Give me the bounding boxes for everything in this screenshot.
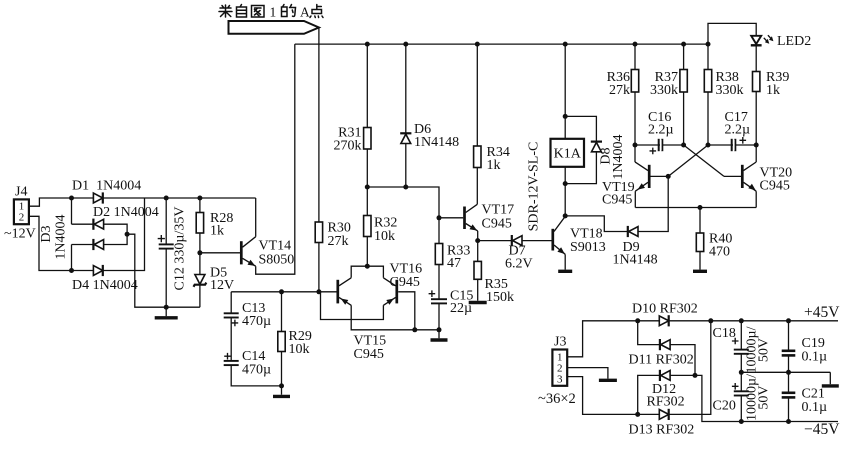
- svg-text:C945: C945: [390, 275, 420, 290]
- ground symbol below C12: [165, 307, 167, 316]
- wire: VT20 base lead: [724, 175, 741, 177]
- R36 box: [631, 70, 638, 93]
- ground symbol at 0V rail right end: [829, 372, 831, 384]
- wire: rail to R31: [366, 44, 368, 127]
- wire: D10 cathode to +45V rail: [669, 320, 838, 322]
- junction rail/D6: [403, 42, 408, 47]
- wire: emitter rail to R40: [699, 208, 701, 234]
- D4 symbol: [93, 265, 102, 276]
- svg-text:D10 RF302: D10 RF302: [632, 302, 698, 317]
- wire: R38 to right node: [707, 92, 709, 145]
- svg-text:0.1µ: 0.1µ: [802, 400, 828, 415]
- svg-text:VT14: VT14: [259, 239, 292, 254]
- svg-text:12V: 12V: [210, 278, 234, 293]
- wire: VT18 collector to D9: [565, 216, 628, 232]
- wire: C15 to ground node: [438, 303, 440, 329]
- wire: R37 to left node: [683, 92, 685, 145]
- svg-text:1N4004: 1N4004: [611, 134, 626, 179]
- capacitor C17 2.2µ: [731, 139, 733, 151]
- R34 box: [474, 146, 481, 168]
- wire: VT17 emitter node: [477, 231, 479, 241]
- svg-text:27k: 27k: [609, 83, 630, 98]
- junction row1/C12: [164, 196, 169, 201]
- svg-text:A: A: [300, 5, 310, 20]
- node AC1 (D1 anode / D2 cathode): [69, 196, 74, 201]
- node negative (D11/D12 anodes): [693, 373, 698, 378]
- wire: rail to D6: [405, 44, 407, 133]
- svg-text:1k: 1k: [210, 224, 224, 239]
- wire: R40 to ground: [699, 252, 701, 270]
- wire: AC1 to D10: [638, 320, 660, 322]
- junction left node/R37/VT20 base cross: [681, 143, 686, 148]
- node AC1 out (D10 anode/D11 cathode): [635, 318, 640, 323]
- wire: row1 to C12 top: [165, 198, 167, 244]
- wire: R33 to C15: [438, 265, 440, 300]
- junction emitter/R35/D7: [475, 238, 480, 243]
- wire: D6 to timing node: [405, 144, 407, 188]
- wire: D7 to VT18 base: [522, 240, 552, 242]
- wire: +12V top rail: [295, 43, 708, 45]
- svg-text:J4: J4: [15, 185, 27, 200]
- wire: rail jog up to LED2: [708, 23, 756, 44]
- svg-text:3: 3: [557, 374, 563, 386]
- wire: coil bottom to VT18 collector: [564, 167, 566, 216]
- wire: multivibrator emitter rail: [635, 207, 756, 209]
- junction VT18 collector/coil/D9 branch: [563, 213, 568, 218]
- wire: AC1 down to D11: [638, 321, 660, 345]
- ground symbol below C15: [438, 330, 440, 339]
- capacitor C14 470µ: [224, 360, 239, 362]
- D7 symbol: [512, 235, 522, 246]
- node bridge negative (D2/D3 anodes): [125, 232, 130, 237]
- ground: [693, 270, 707, 273]
- junction R28/VT14 base/D5: [197, 250, 202, 255]
- wire: rail to R34: [476, 44, 478, 146]
- wire: R36 to left node: [634, 92, 636, 145]
- R37 box: [680, 70, 687, 93]
- D12 symbol: [660, 370, 670, 381]
- svg-text:10k: 10k: [289, 342, 310, 357]
- ground symbol below VT18 emitter: [564, 254, 566, 269]
- banner arrow pointer: [229, 21, 319, 34]
- svg-text:J3: J3: [554, 335, 566, 350]
- wire: VT14 collector up to row1: [255, 198, 257, 237]
- ground: [822, 384, 839, 387]
- wire: cross-couple VT19 base to right node: [668, 145, 708, 176]
- junction row1/R28: [197, 196, 202, 201]
- junction right node/R39/VT20 collector: [754, 143, 759, 148]
- wire: J3 pin3 to D13 row: [567, 377, 638, 415]
- wire: 0V middle rail: [741, 371, 830, 373]
- wire: D5 to ground bus: [199, 285, 201, 308]
- wire: R39 to right node: [755, 92, 757, 146]
- R40 box: [696, 233, 703, 252]
- wire: timing node line to VT17 base: [367, 187, 439, 218]
- transistor VT20 C945: [742, 162, 756, 191]
- wire: rail to R36: [634, 44, 636, 69]
- R32 box: [364, 216, 371, 237]
- R29 box: [278, 332, 285, 352]
- wire: AC2 vertical D3 to row4: [71, 245, 73, 271]
- svg-text:2.2µ: 2.2µ: [648, 123, 674, 138]
- svg-text:1k: 1k: [766, 83, 780, 98]
- transistor VT18 S9013: [553, 216, 565, 254]
- svg-text:D2 1N4004: D2 1N4004: [93, 205, 159, 220]
- wire: node to R32: [366, 187, 368, 216]
- junction -45V rail/C21: [786, 419, 791, 424]
- D13 symbol: [659, 409, 668, 420]
- svg-text:C945: C945: [354, 347, 384, 362]
- junction -45V rail/C20: [739, 419, 744, 424]
- wire: left node down to VT19 collector: [634, 145, 636, 162]
- wire: D12 anode to negative node: [670, 374, 695, 376]
- wire: row1 to R28: [199, 198, 201, 213]
- D8 symbol: [591, 142, 602, 152]
- svg-text:+45V: +45V: [804, 304, 840, 321]
- wire: rail to R38: [707, 44, 709, 69]
- svg-text:0.1µ: 0.1µ: [802, 350, 828, 365]
- D11 symbol: [660, 339, 670, 350]
- wire: VT19 emitter down to emitter rail: [634, 191, 636, 207]
- junction base node/R30/VT16 emitter: [316, 289, 321, 294]
- ground: [469, 301, 487, 304]
- R33 box: [435, 244, 442, 265]
- svg-text:150k: 150k: [486, 290, 514, 305]
- banner text: 来自图1的A点 (hand-drawn CJK glyphs): [219, 5, 323, 20]
- junction left node/R36/VT19 collector: [633, 143, 638, 148]
- svg-text:D4 1N4004: D4 1N4004: [72, 278, 138, 293]
- junction base/R33 chain: [437, 215, 442, 220]
- junction timing node/D6: [403, 185, 408, 190]
- wire: VT20 emitter down to emitter rail: [755, 191, 757, 207]
- wire: C12 bottom to ground bus: [165, 249, 167, 308]
- junction rail/R34: [475, 42, 480, 47]
- wire: D12 cathode down to AC2: [638, 375, 660, 414]
- wire: cross-couple VT20 base to left node: [684, 145, 724, 176]
- wire: 0V rail to C21: [788, 372, 790, 392]
- svg-text:1k: 1k: [487, 158, 501, 173]
- svg-text:470µ: 470µ: [242, 363, 271, 378]
- wire: D13 cathode up to +45V rail (crosses -45 feed, no dot): [669, 321, 711, 415]
- wire: VT16 base tie down: [398, 292, 415, 330]
- wire: VT17 base lead: [439, 217, 463, 219]
- svg-text:1N4004: 1N4004: [54, 214, 69, 259]
- svg-text:D1 1N4004: D1 1N4004: [72, 179, 141, 194]
- wire: bridge row2 (D2 row): [72, 224, 128, 234]
- R31 box: [364, 128, 371, 150]
- junction VT19 base/D9/cross: [666, 174, 671, 179]
- wire: VT15 base node line: [231, 291, 336, 293]
- wire: AC1 vertical D1-anode to D2: [71, 198, 73, 224]
- wire: R31 to timing node: [366, 149, 368, 187]
- wire: base wire to VT14: [200, 252, 240, 254]
- wire: rail to R37: [683, 44, 685, 69]
- junction +45V rail/D13 feed: [708, 318, 713, 323]
- wire: rail down to relay coil: [564, 44, 566, 139]
- R39 box: [753, 72, 760, 92]
- wire: node to R29: [281, 292, 283, 332]
- svg-text:C945: C945: [602, 193, 632, 208]
- wire: bridge row4 (D4 row): [72, 198, 145, 271]
- wire: VT15/VT16 collector tie: [351, 266, 383, 278]
- svg-text:~12V: ~12V: [4, 227, 36, 242]
- wire: bridge negative to ground bus: [127, 234, 200, 307]
- svg-text:1N4148: 1N4148: [613, 253, 658, 268]
- connector J3: [552, 350, 567, 386]
- svg-text:2: 2: [19, 211, 25, 223]
- wire: J3 pin1 to D10 row: [567, 321, 638, 357]
- zener diode D5 12V: [194, 275, 207, 287]
- svg-text:SDR-12V-SL-C: SDR-12V-SL-C: [527, 142, 542, 232]
- junction emitter rail/R40: [698, 205, 703, 210]
- junction +45V rail/C18: [739, 318, 744, 323]
- wire: J3 pin2 to ground: [567, 368, 608, 379]
- junction rail/R37: [681, 42, 686, 47]
- svg-text:D13 RF302: D13 RF302: [629, 423, 695, 438]
- svg-text:D3: D3: [39, 225, 54, 242]
- D3 symbol: [93, 239, 103, 250]
- LED LED2: [751, 35, 772, 45]
- svg-text:50V: 50V: [757, 385, 772, 409]
- svg-text:S9013: S9013: [570, 240, 606, 255]
- D6 symbol: [400, 133, 411, 143]
- wire: right node down to VT20 collector: [755, 145, 757, 162]
- junction collectors/R32: [365, 264, 370, 269]
- transistor VT16 C945: [383, 278, 396, 306]
- wire: D8 top branch: [565, 116, 596, 141]
- wire: VT15 emitter down to bottom wire: [351, 305, 439, 330]
- wire: R34 to VT17 collector: [476, 168, 478, 205]
- svg-text:270k: 270k: [334, 139, 362, 154]
- junction rail/R38-LED: [706, 42, 711, 47]
- relay coil K1A: [551, 139, 585, 167]
- svg-text:C18: C18: [713, 326, 736, 341]
- D1 symbol: [93, 192, 102, 203]
- wire: R29 to ground node: [281, 352, 283, 386]
- transistor VT15 C945: [338, 278, 351, 306]
- wire: J4 pin1 to bridge row1: [29, 198, 72, 206]
- wire: VT19 base lead: [651, 175, 669, 177]
- R35 box: [474, 261, 481, 279]
- junction rail/R36: [633, 42, 638, 47]
- wire: C21 to -45V rail: [788, 397, 790, 421]
- wire: negative node to -45V rail: [695, 375, 838, 421]
- node AC2 (D4 anode / D3 cathode): [69, 268, 74, 273]
- svg-text:VT17: VT17: [482, 203, 515, 218]
- wire: C20 to -45V rail: [740, 396, 742, 422]
- wire: emitter to D7: [478, 240, 512, 242]
- svg-text:C945: C945: [482, 217, 512, 232]
- wire: AC2 to D13: [638, 413, 660, 415]
- R30 box: [315, 222, 322, 243]
- svg-text:LED2: LED2: [777, 34, 811, 49]
- junction node/R29: [279, 289, 284, 294]
- junction 0V/C18-C20: [739, 370, 744, 375]
- junction bottom wire/VT16 base tie: [412, 327, 417, 332]
- svg-text:330k: 330k: [716, 83, 744, 98]
- connector J4: [14, 199, 29, 224]
- junction coil top/D8 branch: [563, 114, 568, 119]
- ground: [599, 379, 617, 382]
- svg-text:D11 RF302: D11 RF302: [629, 353, 694, 368]
- svg-text:330k: 330k: [650, 83, 678, 98]
- D9 symbol: [628, 226, 638, 237]
- junction 0V/C19-C21: [786, 370, 791, 375]
- wire: C13 to C14: [230, 318, 232, 361]
- svg-text:2.2µ: 2.2µ: [725, 123, 751, 138]
- wire: R28 to D5/base node: [199, 233, 201, 275]
- node AC2 out (D13 anode/D12 cathode): [635, 412, 640, 417]
- wire: C19 to 0V rail: [788, 355, 790, 372]
- svg-text:470µ: 470µ: [242, 314, 271, 329]
- svg-text:~36×2: ~36×2: [538, 391, 576, 407]
- junction bottom wire/C15/ground: [437, 327, 442, 332]
- ground symbol below R29/C14: [281, 386, 283, 395]
- svg-text:C20: C20: [713, 399, 736, 414]
- wire: LED2 to R39: [755, 45, 757, 71]
- ground: [155, 316, 178, 319]
- wire: D11 anode to negative node: [670, 345, 695, 376]
- ground: [558, 270, 572, 273]
- wire: R32 to collectors: [366, 237, 368, 267]
- svg-text:50V: 50V: [757, 338, 772, 362]
- transistor VT17 C945: [465, 204, 478, 231]
- junction timing node/R31-R32: [365, 185, 370, 190]
- svg-text:470: 470: [709, 245, 730, 260]
- junction right node/R38/VT19 base cross: [706, 143, 711, 148]
- wire: R35 to ground: [477, 279, 479, 300]
- capacitor C16 2.2µ: [658, 139, 660, 151]
- junction rail/R31: [365, 42, 370, 47]
- svg-text:C12 330µ/35V: C12 330µ/35V: [173, 207, 188, 291]
- wire: emitter to R35: [477, 241, 479, 262]
- wire: VT16 emitter to base node: [321, 292, 384, 320]
- junction rail/K1A: [563, 42, 568, 47]
- wire: point A drop from arrow tip down to R30: [318, 28, 320, 223]
- junction ground bus/C12: [164, 305, 169, 310]
- ground: [273, 395, 290, 398]
- wire: +45V rail to C19: [788, 321, 790, 350]
- wire: base node down to R33: [438, 218, 440, 244]
- R28 box: [196, 213, 203, 234]
- junction +45V rail/C19: [786, 318, 791, 323]
- wire: left node line through C16: [635, 144, 684, 146]
- wire: D9 to VT19 base node (crosses emitter rail, no dot): [638, 176, 668, 231]
- wire: C14 to ground node: [231, 365, 281, 386]
- transistor VT19 C945: [635, 162, 649, 191]
- svg-text:1: 1: [270, 5, 277, 20]
- svg-text:K1A: K1A: [554, 147, 582, 162]
- svg-text:47: 47: [447, 256, 461, 271]
- D2 symbol: [93, 219, 103, 230]
- svg-text:C945: C945: [760, 179, 790, 194]
- wire: C18 to 0V rail: [740, 354, 742, 373]
- svg-text:10k: 10k: [374, 229, 395, 244]
- junction coil bottom/D8: [563, 181, 568, 186]
- svg-text:27k: 27k: [328, 234, 349, 249]
- wire: D8 bottom branch: [565, 152, 596, 184]
- ground: [431, 338, 448, 341]
- D10 symbol: [659, 315, 668, 326]
- R38 box: [704, 70, 711, 93]
- wire: right node line through C17: [708, 144, 756, 146]
- wire: 0V rail to C20: [740, 372, 742, 391]
- svg-text:6.2V: 6.2V: [505, 257, 533, 272]
- svg-text:−45V: −45V: [804, 421, 840, 438]
- svg-text:S8050: S8050: [259, 253, 295, 268]
- wire: node to C13: [230, 292, 232, 314]
- svg-text:1N4148: 1N4148: [414, 135, 459, 150]
- transistor VT14 S8050: [241, 237, 255, 267]
- svg-text:RF302: RF302: [647, 395, 685, 410]
- wire: R30 to VT15 base node: [318, 243, 320, 292]
- wire: +45V rail to C18: [740, 321, 742, 350]
- junction ground/R29: [279, 383, 284, 388]
- wire: bridge row3 (D3 row): [72, 234, 128, 244]
- wire: bridge row1 (D1 row): [72, 197, 256, 199]
- wire: J4 pin2 to bridge row4: [29, 216, 72, 270]
- wire: VT14 emitter to top rail riser: [256, 44, 295, 274]
